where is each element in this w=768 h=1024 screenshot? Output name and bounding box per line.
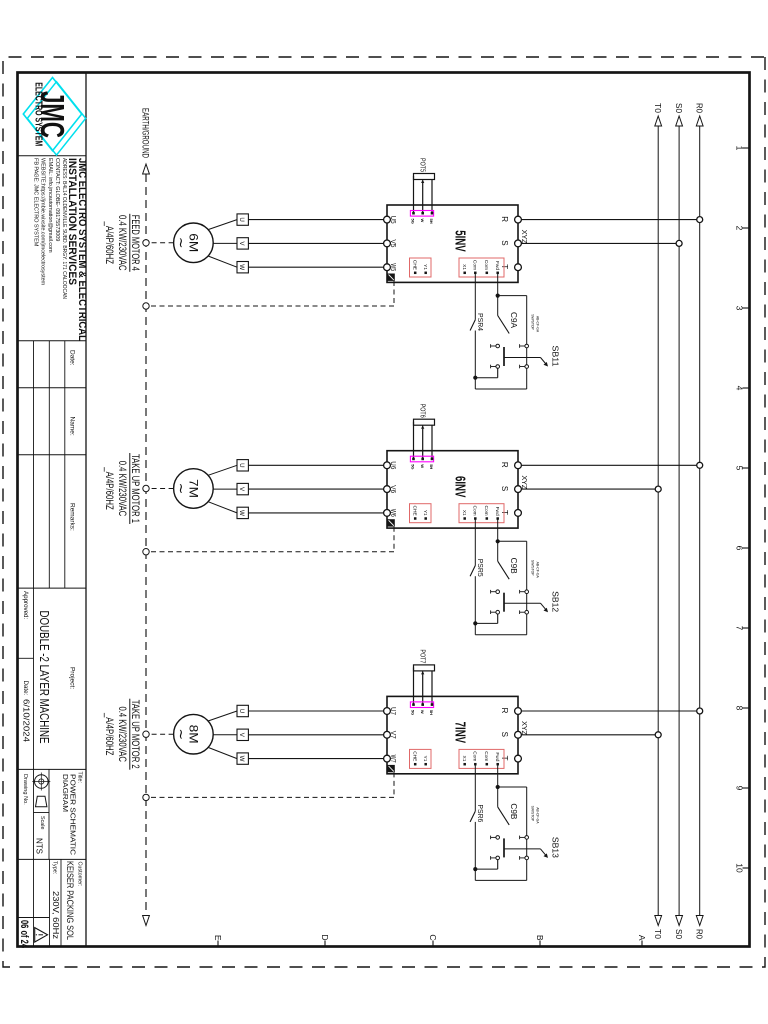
earth bond wire motor 7M xyxy=(149,488,173,490)
junction 5INV S on rail xyxy=(676,240,682,246)
junction node xyxy=(496,539,500,543)
svg-text:W: W xyxy=(420,219,425,223)
svg-text:TAKE UP MOTOR 2: TAKE UP MOTOR 2 xyxy=(129,700,141,769)
wire NO contact to lower branch xyxy=(475,368,497,378)
svg-text:5H: 5H xyxy=(429,464,434,469)
svg-text:Y1: Y1 xyxy=(422,510,428,516)
earth/ground dashed line xyxy=(141,108,151,926)
wire 5INV S to rail xyxy=(521,242,676,244)
svg-text:5INV: 5INV xyxy=(452,230,468,252)
6INV terminal R xyxy=(500,462,521,469)
wire Fwd out of 6INV xyxy=(497,519,499,542)
junction node xyxy=(473,621,477,625)
svg-text:SW/STOP: SW/STOP xyxy=(530,560,534,576)
svg-text:Project:: Project: xyxy=(69,667,76,689)
potentiometer POT5 xyxy=(414,158,435,183)
wire Fwd out of 7INV xyxy=(497,764,499,787)
svg-text:Fwd: Fwd xyxy=(494,507,500,516)
wire Com out of 6INV xyxy=(474,519,476,566)
svg-text:0.4 KW/230VAC: 0.4 KW/230VAC xyxy=(116,215,128,271)
svg-text:R0: R0 xyxy=(695,929,705,939)
svg-text:PSR5: PSR5 xyxy=(476,559,485,577)
pushbutton SB11 NO contact xyxy=(491,344,504,368)
svg-text:C: C xyxy=(428,934,438,940)
selector label xyxy=(530,806,539,825)
grid reference letters A-E along right edge xyxy=(213,934,647,946)
bypass branch wire xyxy=(526,541,528,634)
svg-text:R0: R0 xyxy=(695,103,705,113)
svg-text:C9A: C9A xyxy=(509,312,518,329)
motor terminal box W xyxy=(237,507,248,518)
wire 6INV S to rail xyxy=(521,488,655,490)
svg-text:V: V xyxy=(238,733,245,738)
svg-text:230V, 60Hz: 230V, 60Hz xyxy=(51,891,61,939)
wire Fwd out of 5INV xyxy=(497,273,499,296)
junction 6INV R on R0 xyxy=(697,462,703,468)
svg-text:B: B xyxy=(535,935,545,941)
svg-text:W: W xyxy=(420,464,425,468)
junction 7INV S on rail xyxy=(655,732,661,738)
6INV terminal strip (Y1/CHE) xyxy=(410,504,432,523)
svg-text:S0: S0 xyxy=(674,103,684,113)
svg-text:EARTH/GROUND: EARTH/GROUND xyxy=(141,108,151,158)
svg-text:V7: V7 xyxy=(389,731,396,739)
6INV control terminal strip (Fwd/Com/Com/X1) xyxy=(459,504,504,523)
earth junction xyxy=(143,731,149,737)
pressure switch contact PSR6 xyxy=(470,804,485,869)
warning triangle xyxy=(35,928,48,942)
5INV analog connector (magenta) with pins xyxy=(410,211,434,224)
wires POT6 to 6INV analog connector xyxy=(414,422,433,459)
svg-text:5G: 5G xyxy=(411,464,416,469)
svg-text:U: U xyxy=(238,709,245,713)
6INV terminal W6 xyxy=(384,509,396,517)
project name xyxy=(37,611,51,744)
svg-text:2: 2 xyxy=(735,226,745,231)
JMC logo xyxy=(23,78,85,156)
6INV chassis ground terminal xyxy=(387,519,394,526)
pushbutton SB13 NC contact on bypass branch xyxy=(520,836,529,860)
svg-text:SW/STOP: SW/STOP xyxy=(530,806,534,822)
title block field labels xyxy=(22,350,83,940)
7INV terminal T xyxy=(500,755,521,762)
svg-text:Y1: Y1 xyxy=(422,264,428,270)
wire NO contact to lower branch xyxy=(475,859,497,869)
page number xyxy=(18,920,30,949)
svg-text:Approved:: Approved: xyxy=(22,591,29,619)
svg-text:Com: Com xyxy=(472,260,478,270)
svg-text:S: S xyxy=(500,486,509,491)
junction node xyxy=(473,867,477,871)
svg-text:NTS: NTS xyxy=(35,838,45,854)
svg-text:8: 8 xyxy=(735,706,745,711)
5INV terminal W5 xyxy=(384,263,396,271)
motor 8M xyxy=(174,714,214,754)
svg-text:Com: Com xyxy=(483,751,489,761)
5INV control terminal strip (Fwd/Com/Com/X1) xyxy=(459,258,504,277)
svg-text:W: W xyxy=(238,756,245,762)
svg-text:DIAGRAM: DIAGRAM xyxy=(61,774,70,812)
svg-text:9: 9 xyxy=(735,786,745,791)
6INV analog connector (magenta) with pins xyxy=(410,456,434,469)
5INV terminal strip (Y1/CHE) xyxy=(410,258,432,277)
pushbutton SB11 actuator xyxy=(504,346,561,367)
svg-text:TAKE UP MOTOR 1: TAKE UP MOTOR 1 xyxy=(129,454,141,523)
wires POT5 to 5INV analog connector xyxy=(414,176,433,213)
svg-text:V: V xyxy=(238,241,245,246)
svg-text:S: S xyxy=(500,732,509,737)
svg-text:Com: Com xyxy=(483,260,489,270)
wire V5 to motor junction V xyxy=(248,242,383,244)
svg-text:E: E xyxy=(213,935,223,941)
svg-text:FEED MOTOR 4: FEED MOTOR 4 xyxy=(129,215,141,271)
wire 7INV R to R0 rail xyxy=(521,710,696,712)
svg-text:R: R xyxy=(500,708,509,714)
7INV chassis ground terminal xyxy=(387,765,394,772)
junction 5INV R on R0 xyxy=(697,217,703,223)
wires POT7 to 7INV analog connector xyxy=(414,667,433,704)
svg-text:Com: Com xyxy=(472,506,478,516)
svg-text:V5: V5 xyxy=(389,239,396,247)
svg-text:U6: U6 xyxy=(389,461,396,469)
svg-text:Com: Com xyxy=(483,506,489,516)
svg-text:7INV: 7INV xyxy=(452,722,468,744)
svg-text:AB-CF-GA: AB-CF-GA xyxy=(536,316,540,333)
svg-text:X1: X1 xyxy=(461,264,467,270)
selector label xyxy=(530,560,539,579)
svg-text:U: U xyxy=(238,463,245,467)
5INV terminal S xyxy=(500,240,521,247)
wire 7INV S to rail xyxy=(521,734,655,736)
earth junction xyxy=(143,303,149,309)
svg-text:CONTACT: GLOBE- 09175573009: CONTACT: GLOBE- 09175573009 xyxy=(54,158,60,241)
earth bond wire 6INV xyxy=(149,527,394,552)
svg-text:WEBSITE:https://jmbie.wixsite.: WEBSITE:https://jmbie.wixsite.com/jmcele… xyxy=(40,158,46,286)
svg-text:Remarks:: Remarks: xyxy=(69,503,76,531)
svg-text:1: 1 xyxy=(735,146,745,151)
earth junction xyxy=(143,549,149,555)
wire U5 to motor junction U xyxy=(248,219,383,221)
motor 8M label xyxy=(103,699,141,770)
earth bond wire motor 6M xyxy=(149,242,173,244)
wire to loop corner xyxy=(475,869,526,880)
pushbutton SB11 NC contact on bypass branch xyxy=(520,344,529,368)
svg-text:W: W xyxy=(238,264,245,270)
wire up to bypass branch xyxy=(498,786,527,788)
wire Com out of 7INV xyxy=(474,764,476,811)
svg-text:Scale: Scale xyxy=(39,816,45,830)
svg-text:10: 10 xyxy=(735,863,745,873)
pressure switch contact PSR4 xyxy=(470,313,485,378)
inverter 7INV box xyxy=(387,696,529,773)
motor 7M xyxy=(174,469,214,509)
svg-text:_A/4P/60HZ: _A/4P/60HZ xyxy=(103,712,115,756)
svg-text:W7: W7 xyxy=(389,755,396,763)
svg-text:6INV: 6INV xyxy=(452,476,468,498)
power rail R0 xyxy=(695,103,705,939)
svg-text:AB-CF-GA: AB-CF-GA xyxy=(536,807,540,824)
motor 7M label xyxy=(103,453,141,524)
7INV terminal U7 xyxy=(384,707,396,715)
selector label xyxy=(530,314,539,333)
wires terminal boxes to motor xyxy=(208,220,237,268)
7INV terminal W7 xyxy=(384,755,396,763)
earth bond wire 5INV xyxy=(149,281,394,306)
svg-text:U: U xyxy=(238,217,245,221)
pressure switch contact PSR5 xyxy=(470,559,485,624)
svg-text:Name:: Name: xyxy=(69,417,76,436)
svg-text:5G: 5G xyxy=(411,219,416,224)
junction node xyxy=(496,294,500,298)
svg-text:5: 5 xyxy=(735,466,745,471)
svg-text:POT7: POT7 xyxy=(419,649,428,663)
7INV control terminal strip (Fwd/Com/Com/X1) xyxy=(459,749,504,768)
junction node xyxy=(473,376,477,380)
5INV terminal T xyxy=(500,264,521,271)
projection symbol xyxy=(32,773,50,807)
wire up to bypass branch xyxy=(498,540,527,542)
junction 7INV R on R0 xyxy=(697,708,703,714)
potentiometer POT6 xyxy=(414,404,435,429)
7INV terminal R xyxy=(500,708,521,715)
wire up to bypass branch xyxy=(498,295,527,297)
power rail T0 xyxy=(653,103,663,939)
svg-text:SB13: SB13 xyxy=(551,837,561,858)
svg-text:X1: X1 xyxy=(461,756,467,762)
svg-text:ELECTRO SYSTEM: ELECTRO SYSTEM xyxy=(32,82,43,146)
relay contact C9B xyxy=(498,787,518,825)
svg-text:D: D xyxy=(320,934,330,940)
wire W6 to motor junction W xyxy=(248,512,383,514)
svg-text:C9B: C9B xyxy=(509,558,518,574)
motor terminal box W xyxy=(237,753,248,764)
earth junction xyxy=(143,485,149,491)
wire 5INV R to R0 rail xyxy=(521,219,696,221)
wire U6 to motor junction U xyxy=(248,464,383,466)
svg-text:6: 6 xyxy=(735,546,745,551)
svg-text:T0: T0 xyxy=(653,103,663,113)
svg-text:7: 7 xyxy=(735,626,745,631)
svg-text:R: R xyxy=(500,462,509,468)
svg-text:AB-CF-GA: AB-CF-GA xyxy=(536,562,540,579)
7INV terminal V7 xyxy=(384,731,396,739)
svg-text:5H: 5H xyxy=(429,710,434,715)
svg-text:Date:: Date: xyxy=(69,350,76,366)
svg-text:_A/4P/60HZ: _A/4P/60HZ xyxy=(103,467,115,511)
svg-text:W5: W5 xyxy=(389,263,396,271)
svg-text:X1: X1 xyxy=(461,510,467,516)
wire Com out of 5INV xyxy=(474,273,476,320)
svg-text:POT5: POT5 xyxy=(419,158,428,172)
svg-text:POT6: POT6 xyxy=(419,404,428,418)
wires terminal boxes to motor xyxy=(208,711,237,759)
wire to loop corner xyxy=(475,623,526,634)
svg-text:W: W xyxy=(238,510,245,516)
svg-text:C9B: C9B xyxy=(509,803,518,819)
wire 6INV R to R0 rail xyxy=(521,464,696,466)
svg-text:T0: T0 xyxy=(653,929,663,939)
motor terminal box V xyxy=(237,483,248,494)
svg-text:SB11: SB11 xyxy=(551,346,561,367)
7INV terminal S xyxy=(500,731,521,738)
motor 6M xyxy=(174,223,214,263)
pushbutton SB12 NO contact xyxy=(491,590,504,614)
svg-text:U5: U5 xyxy=(389,216,396,224)
svg-text:6/10/2024: 6/10/2024 xyxy=(22,699,32,742)
grid reference numbers 1-10 along top edge xyxy=(735,146,749,873)
wire NO contact to lower branch xyxy=(475,614,497,624)
drawing title xyxy=(61,774,78,856)
inverter 6INV box xyxy=(387,451,529,528)
earth bond wire 7INV xyxy=(149,772,394,797)
svg-text:0.4 KW/230VAC: 0.4 KW/230VAC xyxy=(116,706,128,762)
7INV terminal strip (Y1/CHE) xyxy=(410,749,432,768)
svg-text:Drawing No.: Drawing No. xyxy=(22,774,28,805)
5INV terminal V5 xyxy=(384,239,396,247)
svg-text:Type:: Type: xyxy=(52,861,58,874)
6INV terminal T xyxy=(500,510,521,517)
svg-text:Y1: Y1 xyxy=(422,756,428,762)
svg-text:CHE: CHE xyxy=(411,260,417,270)
earth bond wire motor 8M xyxy=(149,733,173,735)
junction node xyxy=(496,785,500,789)
svg-text:Fwd: Fwd xyxy=(494,261,500,270)
bypass branch wire xyxy=(526,787,528,880)
svg-text:CHE: CHE xyxy=(411,506,417,516)
motor 6M label xyxy=(103,214,141,272)
svg-text:SB12: SB12 xyxy=(551,591,561,612)
svg-text:EMAIL: info.jmcautomation@gmai: EMAIL: info.jmcautomation@gmail.com xyxy=(47,158,53,253)
svg-text:5G: 5G xyxy=(411,710,416,715)
6INV terminal V6 xyxy=(384,485,396,493)
earth junction xyxy=(143,240,149,246)
pushbutton SB13 NO contact xyxy=(491,836,504,860)
svg-text:∼: ∼ xyxy=(174,728,190,740)
svg-text:W6: W6 xyxy=(389,509,396,517)
wire W5 to motor junction W xyxy=(248,266,383,268)
title block outline xyxy=(18,73,87,947)
relay contact C9B xyxy=(498,541,518,579)
svg-text:Date:: Date: xyxy=(22,681,29,696)
5INV terminal R xyxy=(500,216,521,223)
6INV terminal S xyxy=(500,486,521,493)
earth junction xyxy=(143,794,149,800)
svg-text:3: 3 xyxy=(735,306,745,311)
6INV terminal U6 xyxy=(384,461,396,469)
svg-text:_A/4P/60HZ: _A/4P/60HZ xyxy=(103,221,115,265)
pushbutton SB12 NC contact on bypass branch xyxy=(520,590,529,614)
wire to loop corner xyxy=(475,378,526,389)
svg-text:FB PAGE: JMC ELECTRO SYSTEM: FB PAGE: JMC ELECTRO SYSTEM xyxy=(32,158,38,247)
motor terminal box U xyxy=(237,705,248,716)
wire U7 to motor junction U xyxy=(248,710,383,712)
svg-text:Com: Com xyxy=(472,751,478,761)
wire V6 to motor junction V xyxy=(248,488,383,490)
motor terminal box V xyxy=(237,729,248,740)
5INV chassis ground terminal xyxy=(387,274,394,281)
motor terminal box W xyxy=(237,262,248,273)
svg-text:ADRESS: B4L14 OLDENVILLE SUBD.: ADRESS: B4L14 OLDENVILLE SUBD. BRGY. 171… xyxy=(61,158,67,299)
potentiometer POT7 xyxy=(414,649,435,674)
relay contact C9A xyxy=(498,296,518,334)
motor terminal box U xyxy=(237,460,248,471)
pushbutton SB12 actuator xyxy=(504,591,561,612)
motor terminal box U xyxy=(237,214,248,225)
pushbutton SB13 actuator xyxy=(504,837,561,858)
power rail S0 xyxy=(674,103,684,939)
wire W7 to motor junction W xyxy=(248,758,383,760)
5INV terminal U5 xyxy=(384,216,396,224)
svg-text:PSR4: PSR4 xyxy=(476,313,485,331)
svg-text:06 of 24: 06 of 24 xyxy=(18,920,30,949)
svg-text:INSTALLATION SERVICES: INSTALLATION SERVICES xyxy=(66,158,78,285)
svg-text:R: R xyxy=(500,216,509,222)
svg-text:S: S xyxy=(500,240,509,245)
wires terminal boxes to motor xyxy=(208,465,237,513)
svg-text:CHE: CHE xyxy=(411,751,417,761)
svg-text:SW/STOP: SW/STOP xyxy=(530,314,534,330)
svg-text:S0: S0 xyxy=(674,929,684,939)
svg-text:∼: ∼ xyxy=(174,483,190,495)
junction 6INV S on rail xyxy=(655,486,661,492)
inverter 5INV box xyxy=(387,205,529,282)
svg-text:KEISER PACKING SOL: KEISER PACKING SOL xyxy=(65,861,75,940)
motor terminal box V xyxy=(237,238,248,249)
svg-text:V: V xyxy=(238,487,245,492)
svg-text:PSR6: PSR6 xyxy=(476,804,485,822)
7INV analog connector (magenta) with pins xyxy=(410,702,434,715)
svg-text:W: W xyxy=(420,710,425,714)
bypass branch wire xyxy=(526,296,528,389)
company info xyxy=(32,158,88,341)
svg-text:5H: 5H xyxy=(429,219,434,224)
svg-text:DOUBLE -2 LAYER MACHINE: DOUBLE -2 LAYER MACHINE xyxy=(37,611,51,744)
svg-text:Customer:: Customer: xyxy=(77,862,83,887)
svg-text:Fwd: Fwd xyxy=(494,752,500,761)
svg-text:U7: U7 xyxy=(389,707,396,715)
svg-text:0.4 KW/230VAC: 0.4 KW/230VAC xyxy=(116,461,128,517)
svg-text:A: A xyxy=(637,935,647,941)
svg-text:V6: V6 xyxy=(389,485,396,493)
svg-text:4: 4 xyxy=(735,386,745,391)
svg-text:∼: ∼ xyxy=(174,237,190,249)
wire V7 to motor junction V xyxy=(248,734,383,736)
